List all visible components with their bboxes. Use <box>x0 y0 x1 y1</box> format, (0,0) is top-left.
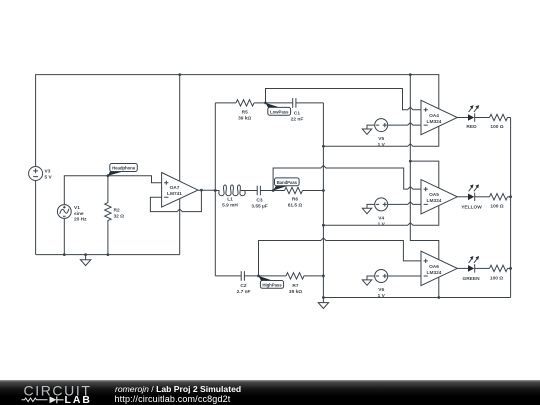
wire LED return rail to ground bus <box>323 297 510 299</box>
wire V6 + to OA6 - input <box>388 275 421 277</box>
label flag Headphone <box>110 164 138 172</box>
svg-text:5.9 mH: 5.9 mH <box>222 203 238 209</box>
capacitor C3 3.55 uF <box>251 186 267 210</box>
capacitor C2 2.7 nF <box>237 271 251 295</box>
wire OA7 V- stub to bottom rail <box>179 199 181 255</box>
ground symbol V6 <box>362 280 371 285</box>
flag wedge HighPass <box>259 276 274 281</box>
wire lowpass node up and over to OA4 + input with hop <box>266 89 422 110</box>
svg-text:LM741: LM741 <box>167 191 182 197</box>
svg-text:20 Hz: 20 Hz <box>74 217 87 223</box>
flag wedge Headphone <box>108 171 123 176</box>
svg-text:http://circuitlab.com/cc8gd2t: http://circuitlab.com/cc8gd2t <box>115 394 231 404</box>
resistor R5 39 kOhm <box>236 100 254 122</box>
svg-text:Headphone: Headphone <box>112 166 136 171</box>
svg-text:100 Ω: 100 Ω <box>490 275 503 281</box>
wire ground bus vertical <box>322 103 324 298</box>
node junction ground stub/bottom rail <box>84 253 87 256</box>
wire R6 to ground bus <box>303 190 324 192</box>
flag wedge BandPass <box>273 186 288 191</box>
svg-text:39 kΩ: 39 kΩ <box>238 115 251 121</box>
svg-text:C2: C2 <box>240 283 246 289</box>
resistor 100 ohm row1 <box>490 114 508 130</box>
svg-text:L1: L1 <box>227 197 233 203</box>
svg-text:61.5 Ω: 61.5 Ω <box>288 203 303 209</box>
svg-text:100 Ω: 100 Ω <box>490 203 503 209</box>
resistor R2 32 ohm <box>105 176 124 255</box>
flag wedge LowPass <box>266 103 281 108</box>
svg-text:5 V: 5 V <box>45 175 53 181</box>
svg-text:1 V: 1 V <box>378 221 386 227</box>
logo resistor squiggle <box>22 398 48 402</box>
wire OA7 output to filter bus <box>198 189 215 191</box>
node LowPass junction <box>264 102 267 105</box>
svg-text:R5: R5 <box>242 109 248 115</box>
svg-text:V5: V5 <box>378 136 384 142</box>
wire filter input bus vertical <box>214 103 216 276</box>
svg-text:OA6: OA6 <box>429 264 439 270</box>
wire top +5V rail from V3 to OA4 V+ <box>36 75 439 167</box>
wire V1 top to headphone node to OA7 + input <box>64 176 161 205</box>
svg-text:V4: V4 <box>378 215 384 221</box>
resistor 100 ohm row2 <box>490 194 508 210</box>
svg-text:BandPass: BandPass <box>277 180 298 185</box>
label flag HighPass <box>260 281 283 289</box>
svg-text:C3: C3 <box>256 198 262 204</box>
wire OA4 V- to ground bus with hop <box>323 126 438 146</box>
node junction right rail/row3 <box>509 267 512 270</box>
svg-text:LAB: LAB <box>65 395 92 405</box>
svg-text:romerojn / Lab Proj 2 Simulate: romerojn / Lab Proj 2 Simulated <box>115 384 241 394</box>
wire OA5 V+ feed <box>410 161 439 188</box>
node junction ground bus/return rail <box>322 296 325 299</box>
wire R7 to ground bus <box>304 275 324 277</box>
wire LED RED to resistor <box>475 117 490 119</box>
node BandPass junction <box>272 189 275 192</box>
svg-text:GREEN: GREEN <box>462 276 480 282</box>
label flag LowPass <box>268 107 291 115</box>
svg-text:3.55 µF: 3.55 µF <box>251 204 267 210</box>
voltage source V6 1V <box>375 270 388 300</box>
resistor 100 ohm row3 <box>490 265 508 281</box>
wire LED YELLOW to resistor <box>475 196 490 198</box>
wire L1 to C3 <box>241 190 258 192</box>
LED RED <box>457 105 479 130</box>
logo diode <box>50 396 57 403</box>
wire highpass node up and over to OA6 + input with hop <box>259 238 422 276</box>
wire C2 to highpass node <box>244 275 286 277</box>
op-amp OA6 LM324 <box>421 251 457 285</box>
op-amp OA7 LM741 <box>162 173 198 208</box>
wire R5 to lowpass node <box>254 102 266 104</box>
wire bandpass node up and over to OA5 + input with hops <box>273 166 421 191</box>
wire V3 bottom lead <box>35 181 37 255</box>
svg-text:LM324: LM324 <box>427 270 442 276</box>
svg-text:HighPass: HighPass <box>262 283 282 288</box>
resistor R6 61.5 ohm <box>285 187 303 208</box>
LED GREEN <box>457 256 480 282</box>
label flag BandPass <box>275 178 300 186</box>
svg-text:1 V: 1 V <box>378 293 386 299</box>
wire resistor row1 to right rail <box>508 117 511 119</box>
node Headphone junction <box>107 174 110 177</box>
ground symbol main left <box>80 255 90 266</box>
wire resistor row3 to right rail <box>508 267 511 269</box>
svg-text:C1: C1 <box>294 111 300 117</box>
svg-text:32 Ω: 32 Ω <box>114 213 125 219</box>
wire LED GREEN to resistor <box>475 267 490 269</box>
wire OA5 V- to ground bus with hop <box>323 206 438 226</box>
svg-text:1 V: 1 V <box>378 142 386 148</box>
svg-text:OA7: OA7 <box>170 185 180 191</box>
node junction R2/bottom rail <box>107 253 110 256</box>
wire bottom ground rail <box>36 254 180 256</box>
svg-text:RED: RED <box>466 124 477 130</box>
ground symbol V5 <box>362 129 371 134</box>
resistor R7 39 kOhm <box>286 273 304 295</box>
voltage source V4 1V <box>375 198 388 228</box>
node junction ground bus/OA5 V- <box>322 224 325 227</box>
node junction V1/bottom rail <box>63 253 66 256</box>
node junction rail/+5 bus <box>409 73 412 76</box>
svg-text:R7: R7 <box>292 283 298 289</box>
wire V5 - to ground <box>367 125 375 129</box>
wire OA6 V- stub <box>438 277 440 297</box>
svg-text:YELLOW: YELLOW <box>461 204 482 210</box>
wire highpass row: bus to C2 <box>215 275 241 277</box>
node HighPass junction <box>257 275 260 278</box>
wire V1 bottom lead <box>63 218 65 254</box>
wire V4 + to OA5 - input with hop <box>388 202 421 205</box>
node junction rail/OA7 V+ <box>178 73 181 76</box>
node junction ground bus/OA4 V- <box>322 145 325 148</box>
wire bandpass row: bus to L1 <box>215 190 219 192</box>
svg-text:V1: V1 <box>74 205 80 211</box>
ground symbol V4 <box>362 208 371 213</box>
svg-text:100 Ω: 100 Ω <box>490 124 503 130</box>
wire V4 - to ground <box>367 204 375 208</box>
svg-text:OA4: OA4 <box>429 113 439 119</box>
capacitor C1 22 nF <box>291 98 304 123</box>
wire V5 + to OA4 - input with hop <box>388 123 421 126</box>
svg-text:22 nF: 22 nF <box>291 117 304 123</box>
voltage source V3 5V <box>29 167 53 181</box>
LED YELLOW <box>457 184 482 210</box>
node junction right rail/row2 <box>509 195 512 198</box>
inductor L1 5.9 mH <box>219 185 245 209</box>
wire +5V bus vertical to OA6 V+ <box>410 75 439 260</box>
svg-text:LM324: LM324 <box>427 198 442 204</box>
voltage source V5 1V <box>375 119 388 149</box>
wire lowpass node to C1 <box>266 102 293 104</box>
svg-text:R6: R6 <box>292 197 298 203</box>
node junction ground bus/R6 <box>322 189 325 192</box>
node junction bus/bandpass row <box>214 189 217 192</box>
wire lowpass row left lead <box>215 102 236 104</box>
wire OA7 V+ stub <box>179 75 181 182</box>
node junction ground bus/R7 <box>322 275 325 278</box>
svg-text:sine: sine <box>74 211 84 217</box>
svg-text:LM324: LM324 <box>427 119 442 125</box>
svg-text:R2: R2 <box>114 207 120 213</box>
node junction +5 bus/OA5 V+ feed <box>409 160 412 163</box>
svg-text:LowPass: LowPass <box>270 109 289 114</box>
op-amp OA5 LM324 <box>421 180 457 214</box>
wire C3 to bandpass node <box>260 190 284 192</box>
wire V6 - to ground <box>367 276 375 280</box>
ground symbol main right <box>318 298 328 309</box>
svg-text:39 kΩ: 39 kΩ <box>289 289 302 295</box>
node junction OA6 V-/return wire <box>437 296 440 299</box>
node OA7 output junction <box>200 189 203 192</box>
wire LED right return rail <box>510 118 512 298</box>
wire OA7 feedback loop with hop <box>150 190 201 212</box>
wire C1 to ground bus <box>296 102 324 104</box>
wire resistor row2 to right rail <box>508 196 511 198</box>
svg-text:2.7 nF: 2.7 nF <box>237 289 251 295</box>
svg-text:OA5: OA5 <box>429 192 439 198</box>
svg-text:V6: V6 <box>378 287 384 293</box>
op-amp OA4 LM324 <box>421 100 457 134</box>
svg-text:V3: V3 <box>45 169 51 175</box>
voltage source V1 sine 20 Hz <box>57 205 87 223</box>
